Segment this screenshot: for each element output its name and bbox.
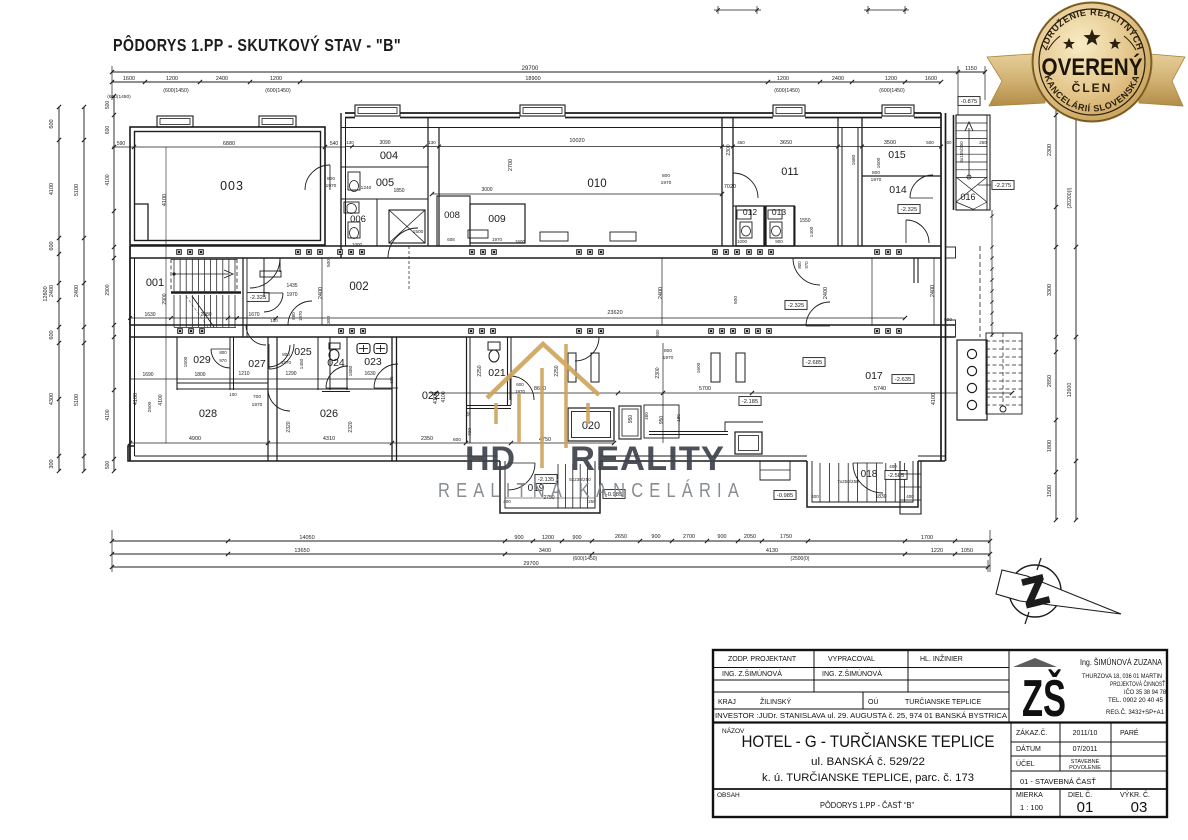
- svg-text:4100: 4100: [441, 391, 447, 402]
- svg-text:3500: 3500: [884, 140, 896, 146]
- svg-text:400: 400: [811, 494, 819, 499]
- svg-text:(600(1450): (600(1450): [163, 88, 189, 94]
- svg-text:1970: 1970: [663, 355, 674, 361]
- svg-text:1000: 1000: [737, 239, 748, 244]
- svg-text:01: 01: [1077, 799, 1094, 816]
- svg-text:VYPRACOVAL: VYPRACOVAL: [828, 656, 875, 663]
- svg-text:026: 026: [320, 408, 338, 420]
- svg-text:800: 800: [664, 348, 672, 354]
- svg-text:1200: 1200: [777, 76, 789, 82]
- svg-text:002: 002: [349, 281, 368, 293]
- svg-text:017: 017: [865, 370, 883, 382]
- svg-text:2400: 2400: [74, 285, 80, 297]
- svg-text:ÚČEL: ÚČEL: [1016, 759, 1035, 768]
- svg-text:4310: 4310: [323, 436, 335, 442]
- svg-text:(600(1450): (600(1450): [879, 88, 905, 94]
- svg-text:(2500(0): (2500(0): [791, 556, 810, 562]
- svg-text:2400: 2400: [658, 287, 664, 299]
- svg-text:OVERENÝ: OVERENÝ: [1042, 53, 1143, 81]
- svg-text:400: 400: [906, 494, 914, 499]
- svg-text:8x155/250: 8x155/250: [959, 141, 964, 163]
- svg-text:2300: 2300: [1047, 144, 1053, 156]
- svg-text:ČLEN: ČLEN: [1072, 80, 1113, 95]
- svg-text:023: 023: [364, 356, 382, 368]
- svg-text:1500: 1500: [183, 356, 189, 367]
- svg-text:900: 900: [651, 534, 660, 540]
- svg-text:4300: 4300: [49, 393, 55, 405]
- svg-text:900: 900: [717, 534, 726, 540]
- svg-text:800: 800: [872, 170, 880, 176]
- svg-text:900: 900: [514, 535, 523, 541]
- svg-text:5100: 5100: [74, 394, 80, 406]
- svg-text:608: 608: [447, 237, 455, 242]
- svg-text:800: 800: [327, 176, 335, 182]
- svg-text:2850: 2850: [1047, 375, 1053, 387]
- svg-text:2400: 2400: [930, 285, 936, 297]
- svg-text:4100: 4100: [162, 194, 168, 206]
- svg-text:450: 450: [737, 140, 745, 145]
- svg-text:ZŠ: ZŠ: [1022, 669, 1066, 728]
- svg-text:14050: 14050: [299, 535, 314, 541]
- svg-text:150: 150: [270, 318, 278, 323]
- svg-text:1970: 1970: [492, 237, 503, 242]
- svg-text:950: 950: [659, 416, 665, 425]
- svg-text:ZÁKAZ.Č.: ZÁKAZ.Č.: [1016, 728, 1048, 737]
- svg-text:12600: 12600: [1067, 383, 1073, 398]
- svg-text:1600: 1600: [696, 362, 702, 373]
- svg-text:TEL. 0902 20 40 45: TEL. 0902 20 40 45: [1108, 698, 1164, 704]
- svg-text:014: 014: [889, 184, 907, 196]
- svg-text:1290: 1290: [285, 371, 296, 377]
- svg-text:1600: 1600: [123, 76, 135, 82]
- svg-text:600: 600: [105, 126, 111, 135]
- svg-text:2700: 2700: [683, 534, 695, 540]
- svg-text:1200: 1200: [885, 76, 897, 82]
- svg-text:2080: 2080: [200, 312, 211, 318]
- svg-text:010: 010: [587, 178, 606, 190]
- svg-text:2011/10: 2011/10: [1073, 730, 1098, 737]
- svg-text:4100: 4100: [105, 174, 111, 185]
- svg-text:020: 020: [582, 420, 600, 432]
- svg-text:VÝKR. Č.: VÝKR. Č.: [1120, 790, 1150, 799]
- svg-text:STAVEBNÉ: STAVEBNÉ: [1071, 758, 1100, 765]
- svg-text:ZODP. PROJEKTANT: ZODP. PROJEKTANT: [728, 656, 797, 663]
- svg-text:POVOLENIE: POVOLENIE: [1069, 765, 1101, 771]
- svg-text:700: 700: [467, 428, 473, 436]
- svg-text:1220: 1220: [931, 548, 943, 554]
- svg-text:2400: 2400: [216, 76, 228, 82]
- svg-text:29700: 29700: [522, 66, 539, 72]
- svg-text:021: 021: [488, 367, 506, 379]
- svg-text:500: 500: [655, 329, 660, 337]
- svg-text:1 : 100: 1 : 100: [1020, 803, 1043, 812]
- svg-text:900: 900: [775, 239, 783, 244]
- svg-text:DÁTUM: DÁTUM: [1016, 744, 1041, 753]
- svg-text:ŽILINSKÝ: ŽILINSKÝ: [760, 697, 791, 706]
- svg-text:1200: 1200: [166, 76, 178, 82]
- svg-text:7x250/250: 7x250/250: [837, 479, 859, 484]
- svg-text:500: 500: [105, 461, 111, 470]
- svg-text:500: 500: [733, 296, 739, 304]
- svg-text:1435: 1435: [286, 283, 297, 289]
- svg-text:(600(1450): (600(1450): [573, 556, 598, 562]
- svg-text:4100: 4100: [105, 409, 111, 420]
- svg-text:1000: 1000: [352, 242, 363, 247]
- svg-text:900: 900: [572, 535, 581, 541]
- svg-text:07/2011: 07/2011: [1073, 746, 1098, 753]
- svg-text:3400: 3400: [539, 548, 551, 554]
- svg-text:013: 013: [772, 207, 786, 217]
- svg-text:7020: 7020: [724, 184, 736, 190]
- svg-text:1600: 1600: [876, 157, 882, 168]
- svg-text:12600: 12600: [43, 286, 49, 301]
- svg-text:4100: 4100: [931, 393, 937, 405]
- svg-text:1700: 1700: [921, 535, 933, 541]
- svg-text:REALITNÁ KANCELÁRIA: REALITNÁ KANCELÁRIA: [438, 479, 745, 502]
- svg-text:500: 500: [926, 140, 934, 145]
- svg-text:1240: 1240: [361, 185, 372, 191]
- svg-text:4100: 4100: [49, 183, 55, 195]
- svg-text:025: 025: [294, 346, 312, 358]
- svg-text:-2.185: -2.185: [742, 399, 758, 405]
- svg-text:800: 800: [797, 261, 802, 269]
- svg-text:IČO 35 38 94 78: IČO 35 38 94 78: [1124, 689, 1167, 696]
- svg-text:OBSAH: OBSAH: [717, 792, 740, 799]
- svg-text:600: 600: [49, 119, 55, 128]
- svg-text:1670: 1670: [248, 312, 259, 318]
- svg-text:2700: 2700: [508, 159, 514, 171]
- svg-text:600: 600: [389, 376, 394, 384]
- svg-text:600: 600: [49, 330, 55, 339]
- svg-text:-2.325: -2.325: [788, 303, 804, 309]
- svg-text:ul. BANSKÁ č. 529/22: ul. BANSKÁ č. 529/22: [811, 755, 925, 768]
- svg-text:008: 008: [444, 210, 460, 221]
- svg-text:700: 700: [253, 394, 261, 400]
- svg-text:Ing. ŠIMÚNOVÁ ZUZANA: Ing. ŠIMÚNOVÁ ZUZANA: [1080, 657, 1162, 667]
- svg-text:3300: 3300: [1047, 284, 1053, 296]
- svg-text:970: 970: [804, 261, 809, 269]
- svg-text:k. ú. TURČIANSKE TEPLICE, par: k. ú. TURČIANSKE TEPLICE, parc. č. 173: [762, 771, 974, 784]
- svg-text:2900: 2900: [162, 293, 168, 304]
- svg-text:1970: 1970: [871, 177, 882, 183]
- svg-text:2400: 2400: [823, 287, 829, 299]
- svg-text:1970: 1970: [252, 402, 263, 408]
- svg-text:-0.875: -0.875: [961, 99, 977, 105]
- svg-text:460: 460: [644, 412, 649, 420]
- svg-text:(600(1450): (600(1450): [774, 88, 800, 94]
- svg-text:400: 400: [889, 464, 897, 469]
- svg-text:1850: 1850: [393, 188, 404, 194]
- svg-text:015: 015: [888, 149, 906, 161]
- svg-text:HOTEL - G - TURČIANSKE TEPLICE: HOTEL - G - TURČIANSKE TEPLICE: [742, 732, 995, 751]
- svg-text:2400: 2400: [49, 285, 55, 297]
- svg-text:130: 130: [428, 140, 436, 145]
- svg-text:HL. INŽINIER: HL. INŽINIER: [920, 654, 963, 663]
- svg-text:4100: 4100: [133, 393, 139, 405]
- svg-text:300: 300: [49, 459, 55, 468]
- svg-text:006: 006: [350, 214, 366, 225]
- svg-text:009: 009: [488, 213, 506, 225]
- svg-text:012: 012: [743, 207, 757, 217]
- svg-text:1050: 1050: [961, 548, 973, 554]
- svg-text:-0.985: -0.985: [777, 493, 793, 499]
- svg-text:(20200(I): (20200(I): [1067, 187, 1073, 208]
- svg-text:1830: 1830: [875, 494, 886, 500]
- svg-text:2900: 2900: [105, 284, 111, 295]
- svg-text:(600(1450): (600(1450): [107, 94, 131, 100]
- svg-text:1200: 1200: [542, 535, 554, 541]
- svg-text:MIERKA: MIERKA: [1016, 792, 1043, 799]
- svg-text:130: 130: [346, 140, 354, 145]
- svg-text:10020: 10020: [569, 138, 584, 144]
- svg-text:4900: 4900: [189, 436, 201, 442]
- svg-text:3090: 3090: [379, 140, 390, 146]
- svg-text:PARÉ: PARÉ: [1120, 728, 1139, 737]
- svg-text:1800: 1800: [194, 372, 205, 378]
- svg-text:-2.275: -2.275: [995, 183, 1011, 189]
- svg-text:2250: 2250: [477, 365, 483, 376]
- svg-text:1690: 1690: [142, 372, 153, 378]
- svg-text:5740: 5740: [874, 386, 886, 392]
- svg-text:50: 50: [466, 411, 471, 416]
- svg-text:8650: 8650: [534, 386, 546, 392]
- svg-text:590: 590: [117, 141, 126, 147]
- svg-text:TURČIANSKE TEPLICE: TURČIANSKE TEPLICE: [905, 697, 981, 706]
- svg-text:1680: 1680: [851, 154, 857, 165]
- svg-text:600: 600: [453, 437, 461, 443]
- svg-text:1210: 1210: [238, 371, 249, 377]
- svg-text:ING. Z.ŠIMÚNOVÁ: ING. Z.ŠIMÚNOVÁ: [722, 669, 782, 678]
- svg-text:1680: 1680: [348, 365, 354, 376]
- svg-text:540: 540: [330, 141, 339, 147]
- svg-text:1600: 1600: [515, 239, 526, 244]
- svg-text:1500: 1500: [1047, 485, 1053, 497]
- svg-text:INVESTOR :JUDr. STANISLAVA ul.: INVESTOR :JUDr. STANISLAVA ul. 29. AUGUS…: [715, 711, 1007, 720]
- svg-text:1500: 1500: [413, 229, 424, 235]
- svg-text:1630: 1630: [364, 371, 375, 377]
- svg-text:100: 100: [229, 392, 237, 397]
- svg-text:005: 005: [376, 177, 394, 189]
- svg-text:001: 001: [146, 277, 164, 289]
- svg-text:PÔDORYS 1.PP - SKUTKOVÝ ST: PÔDORYS 1.PP - SKUTKOVÝ STAV - "B": [113, 34, 401, 55]
- svg-text:1750: 1750: [780, 534, 792, 540]
- svg-text:1970: 1970: [326, 183, 337, 189]
- svg-text:2400: 2400: [318, 287, 324, 299]
- svg-text:2300: 2300: [655, 367, 661, 378]
- svg-text:180: 180: [676, 414, 681, 422]
- svg-text:500: 500: [945, 140, 953, 145]
- svg-text:3000: 3000: [481, 187, 492, 193]
- svg-text:4100: 4100: [158, 394, 164, 405]
- svg-text:018: 018: [861, 469, 878, 480]
- svg-text:REG.Č. 3432+SP+A1: REG.Č. 3432+SP+A1: [1106, 709, 1165, 716]
- svg-text:004: 004: [380, 150, 398, 162]
- svg-text:1630: 1630: [144, 312, 155, 318]
- svg-text:2400: 2400: [832, 76, 844, 82]
- svg-text:THURZOVA 18, 036 01 MARTIN: THURZOVA 18, 036 01 MARTIN: [1082, 674, 1162, 680]
- svg-text:950: 950: [628, 415, 634, 424]
- svg-text:OÚ: OÚ: [868, 697, 879, 706]
- svg-text:HD: HD: [465, 440, 516, 478]
- svg-text:1800: 1800: [1047, 440, 1053, 452]
- svg-text:2050: 2050: [744, 534, 756, 540]
- svg-text:250: 250: [979, 140, 987, 145]
- svg-text:13650: 13650: [294, 548, 309, 554]
- svg-text:2650: 2650: [615, 534, 627, 540]
- svg-text:2500: 2500: [147, 401, 153, 412]
- svg-text:DIEL Č.: DIEL Č.: [1068, 790, 1092, 799]
- svg-text:1600: 1600: [925, 76, 937, 82]
- svg-text:PROJEKTOVÁ ČINNOSŤ: PROJEKTOVÁ ČINNOSŤ: [1110, 680, 1165, 688]
- svg-text:29700: 29700: [523, 561, 538, 567]
- svg-text:1970: 1970: [661, 180, 672, 186]
- svg-text:1550: 1550: [799, 218, 810, 224]
- svg-text:600: 600: [516, 382, 524, 387]
- svg-text:3650: 3650: [780, 140, 792, 146]
- svg-text:300: 300: [326, 316, 332, 324]
- svg-text:800: 800: [219, 350, 227, 355]
- svg-text:ING. Z.ŠIMÚNOVÁ: ING. Z.ŠIMÚNOVÁ: [822, 669, 882, 678]
- svg-text:500: 500: [105, 101, 111, 110]
- svg-text:970: 970: [219, 358, 227, 363]
- svg-text:-2.325: -2.325: [901, 207, 917, 213]
- svg-text:-2.685: -2.685: [806, 360, 822, 366]
- svg-text:028: 028: [199, 408, 217, 420]
- svg-text:1970: 1970: [286, 292, 297, 298]
- svg-text:1450: 1450: [299, 358, 305, 369]
- svg-text:027: 027: [248, 358, 266, 370]
- svg-text:2300: 2300: [726, 144, 732, 155]
- svg-text:500: 500: [326, 259, 332, 267]
- svg-text:003: 003: [220, 179, 244, 193]
- svg-text:2350: 2350: [421, 436, 433, 442]
- svg-text:23620: 23620: [607, 310, 622, 316]
- svg-text:1400: 1400: [809, 226, 815, 237]
- svg-text:5100: 5100: [74, 184, 80, 196]
- svg-text:2320: 2320: [348, 421, 354, 432]
- svg-text:011: 011: [781, 166, 799, 178]
- svg-text:03: 03: [1131, 799, 1148, 816]
- svg-text:029: 029: [193, 354, 211, 366]
- svg-text:REALITY: REALITY: [570, 440, 725, 478]
- svg-text:1150: 1150: [965, 66, 977, 72]
- svg-text:KRAJ: KRAJ: [718, 699, 736, 706]
- svg-text:600: 600: [49, 241, 55, 250]
- svg-text:5700: 5700: [699, 386, 711, 392]
- svg-text:-2.635: -2.635: [895, 377, 911, 383]
- svg-text:(600(1450): (600(1450): [265, 88, 291, 94]
- svg-text:2320: 2320: [286, 421, 292, 432]
- svg-text:PÔDORYS 1.PP - ČASŤ “B”: PÔDORYS 1.PP - ČASŤ “B”: [820, 801, 914, 810]
- svg-text:1200: 1200: [270, 76, 282, 82]
- svg-text:6880: 6880: [223, 141, 235, 147]
- svg-text:860: 860: [291, 312, 296, 320]
- svg-text:01 - STAVEBNÁ ČASŤ: 01 - STAVEBNÁ ČASŤ: [1020, 777, 1096, 786]
- svg-text:18900: 18900: [525, 76, 540, 82]
- svg-text:800: 800: [662, 173, 670, 179]
- svg-text:4130: 4130: [766, 548, 778, 554]
- svg-text:1970: 1970: [298, 310, 303, 321]
- svg-text:2250: 2250: [554, 365, 560, 376]
